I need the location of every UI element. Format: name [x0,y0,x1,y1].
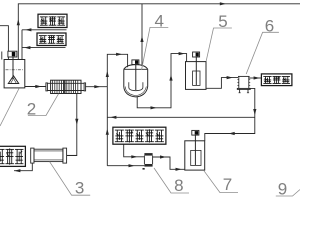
wire filter2 outlet to riser [85,86,107,88]
part number leaders [0,27,300,196]
wire tank1 to filter 2 [25,86,46,88]
motor on evaporator 5 [193,52,200,57]
wire top exhaust rail [18,4,300,60]
wire main riser x107 [107,54,127,165]
wire evaporator5 to condenser 6 [206,78,238,89]
svg-text:5: 5 [218,12,227,31]
wire riser bottom to pump 8 [107,165,144,167]
svg-text:4: 4 [154,12,163,31]
wire left stub into tank 1 [1,52,3,60]
pump 8 [144,153,152,156]
rotary dryer 3 [31,148,77,163]
reactor tank 1 [4,57,25,88]
wire raw feed from left edge [0,26,8,60]
reactor vessel 4 [124,65,148,97]
wire vessel4 outlet to evaporator 5 [137,54,186,108]
svg-text:6: 6 [265,16,274,35]
svg-text:3: 3 [75,179,84,198]
wire condenser6 down to centrifuge 7 [205,88,255,140]
wire dryer3 product out [14,163,32,171]
motor M1 on tank 1 [8,51,17,57]
label box xuningji 絮凝剂 [37,33,66,46]
condenser 6 [237,76,250,92]
label box yanghuaji 氧化剂 [38,14,67,27]
wire reagent feed pipe into tank 1 [21,30,23,60]
wire filter2 solids drop to dryer 3 [67,94,77,156]
evaporator 5 [186,57,207,89]
motor on vessel 4 [132,60,139,65]
label box liusuanmei 硫酸镁 [261,74,292,86]
wire pump8 to centrifuge7 bottom [153,157,185,169]
centrifuge 7 [185,135,205,170]
motor on centrifuge 7 [192,130,199,135]
wire return line y117 [107,116,255,118]
wire KMg box down to pump 8 [124,144,145,157]
wire condenser6 to MgSO4 box [249,77,261,79]
svg-text:8: 8 [174,176,183,195]
label box liusuanjiameifei 硫酸钾镁肥 [113,127,166,144]
label box pinmengfei 品锰肥 [0,146,25,166]
filter press 2 [46,80,86,93]
arrows on wires [220,2,226,5]
wire vessel4 vent riser [141,4,143,66]
svg-text:7: 7 [223,175,232,194]
svg-text:9: 9 [278,180,287,199]
svg-text:2: 2 [27,100,36,119]
